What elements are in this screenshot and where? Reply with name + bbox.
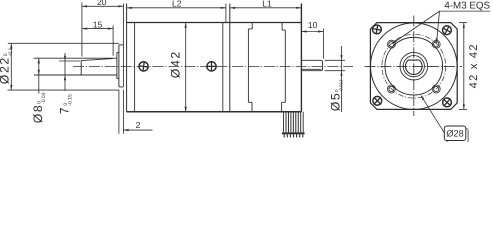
dim dia-5 line [341,46,343,112]
front shaft bottom edge [34,74,117,76]
dim 20 line [82,5,124,7]
dim dia-22 extension top [8,42,119,44]
gearbox front face [126,4,128,112]
gearbox rear joint line [222,23,224,112]
label 42x42 [468,43,480,88]
front shaft flat edge [81,59,112,61]
svg-text:L2: L2 [172,0,182,9]
corner screw 1 [372,24,382,34]
svg-text:42 x 42: 42 x 42 [468,43,480,88]
label dia-8 0/-0.03 [31,92,47,123]
center cross horizontal [365,65,463,67]
motor rear edge [300,4,302,112]
dim 15 right extension [112,26,114,56]
label dia-5 0/-0.013 [329,79,344,111]
dim dia-5 extension top [325,59,346,61]
lead wire ends [283,134,285,137]
dim 42x42 extension top [459,22,467,24]
flange square outline [370,23,457,110]
dim 20 left extension [81,3,83,57]
svg-text:2: 2 [136,120,141,130]
svg-text:Ø42: Ø42 [168,50,182,78]
dim dia-22 extension bottom [8,89,119,91]
dim 15 line [82,28,113,30]
M3 hole upper-right [432,40,440,48]
dim dia-5 extension bottom [325,70,346,72]
label 4-M3 EQS underline [440,10,491,12]
svg-text:-0.1: -0.1 [8,47,14,56]
motor front face / L1 extension [229,4,231,112]
bolt circle dia-28 centerline [382,34,446,98]
corner screw 2 [441,24,453,36]
motor corner notch right [281,23,283,31]
svg-text:15: 15 [93,19,103,29]
pilot dia-28 circle [385,37,443,95]
dim dia-42 line [185,23,187,112]
svg-text:L1: L1 [262,0,272,9]
dim 2 line [123,129,152,131]
bearing ring small [116,52,118,78]
gearbox dia-42 circle [371,23,458,110]
bearing hub circle [403,56,424,77]
leader dia-28 [421,95,444,132]
hub ring circle [400,52,428,80]
svg-text:7: 7 [58,106,72,114]
svg-text:10: 10 [308,20,318,30]
svg-text:-0.15: -0.15 [68,94,74,106]
gearbox front plate inner line [134,23,136,112]
dim L2 line [127,7,226,9]
dim 7 flat extension [59,60,80,62]
label dia-42 [168,50,182,78]
svg-text:20: 20 [97,0,107,7]
screw S2 on gearbox [207,62,216,71]
gearbox top edge [127,22,302,24]
screw S1 on gearbox [138,61,148,71]
svg-text:Ø8: Ø8 [31,104,45,124]
front shaft tip edge [80,60,82,75]
centerline shaft axis [73,65,353,67]
motor lead wires [283,112,285,133]
svg-text:Ø22: Ø22 [0,56,12,84]
label box dia-28 [447,128,469,143]
dim 7 line [64,53,66,91]
svg-text:Ø5: Ø5 [329,92,343,112]
corner screw 3 [371,95,383,107]
corner screw 4 [441,96,453,108]
dim dia-22 line [10,43,12,90]
boss dia-22 outline [118,45,120,87]
svg-text:-0.013: -0.013 [339,79,344,92]
dim 10 right extension [322,29,324,59]
svg-text:Ø28: Ø28 [446,128,463,138]
svg-text:-0.03: -0.03 [41,92,47,104]
M3 hole lower-right [432,85,440,93]
svg-text:4-M3 EQS: 4-M3 EQS [444,0,490,11]
front shaft top edge / dia-8 extension [34,57,118,59]
dim dia-8 line [38,58,40,93]
motor corner notch top-left [251,23,253,29]
M3 hole upper-left [387,40,395,48]
boss face line / dim-20 extension [122,4,124,87]
gearbox bottom edge [127,111,302,113]
dim L1 line [230,7,302,9]
rear shaft flat line [301,68,321,70]
dim 42x42 line [463,23,465,110]
leader to M3 upper-right [437,11,440,43]
dim 2 extension lines [118,90,120,134]
dim 10 line [301,31,323,33]
center cross vertical [413,16,415,117]
shaft dia-8 with flat [406,60,423,74]
leader to M3 upper-left [392,11,439,43]
rear shaft outline [301,60,322,70]
dim 42x42 extension bottom [459,108,467,110]
label 7 0/-0.15 [58,94,74,114]
M3 hole lower-left [387,85,395,93]
L2 right extension [225,4,227,23]
label dia-22 0/-0.1 [0,47,14,84]
